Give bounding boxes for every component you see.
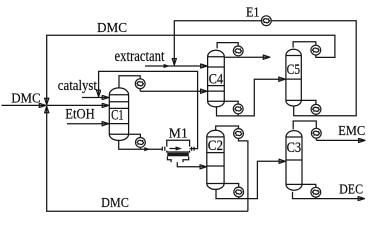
- svg-text:EtOH: EtOH: [65, 106, 95, 122]
- reboiler hx of C5: [311, 104, 321, 114]
- M1 internal flow arrow: [170, 148, 177, 150]
- svg-text:C4: C4: [209, 72, 224, 88]
- svg-text:extractant: extractant: [115, 48, 165, 65]
- svg-text:C1: C1: [111, 108, 124, 124]
- reboiler hx of C1: [136, 138, 146, 148]
- column C4: [208, 50, 225, 107]
- wire: C4 overhead riser to condenser: [217, 43, 238, 49]
- condenser hx of C2: [234, 129, 244, 139]
- condenser hx of C3: [311, 128, 321, 138]
- wire: left vertical up to DMC junction: [46, 107, 48, 212]
- svg-text:C5: C5: [287, 62, 301, 78]
- wire: C1 bottoms to M1: [119, 140, 162, 149]
- svg-text:M1: M1: [169, 125, 188, 140]
- condenser hx of C5: [311, 45, 321, 55]
- wire: top DMC recycle line from C5 condenser, right-up-left across top, down to DMC junction: [47, 35, 335, 104]
- svg-text:C3: C3: [287, 140, 302, 156]
- wire: bottom DMC line: [46, 210, 248, 212]
- wire: C5 reboiler stub: [301, 100, 316, 115]
- column C3: [286, 131, 302, 191]
- wire: catalyst recycle from M1 right port up and over to catalyst line: [99, 71, 198, 148]
- wire: C4 bottoms to C5 feed: [217, 79, 286, 116]
- M1 right flange ticks: [192, 147, 195, 151]
- wire: C3 reboiler stub: [302, 184, 316, 198]
- svg-text:E1: E1: [246, 4, 260, 19]
- wire: C2 overhead riser to condenser: [216, 126, 239, 133]
- column C2: [207, 130, 224, 189]
- svg-text:DMC: DMC: [11, 91, 41, 106]
- wire: C4 distillate product arrow: [224, 56, 269, 58]
- wire: EtOH feed into C1: [67, 123, 109, 125]
- wire: M1 outlet to C2: [177, 162, 206, 167]
- M1 black bar: [167, 153, 189, 157]
- column C5: [286, 49, 301, 106]
- wire: C2 reboiler stub: [224, 184, 239, 199]
- wire: bottom DMC recycle from C2 condenser: down at x247.9: [239, 139, 248, 212]
- svg-text:catalyst: catalyst: [58, 78, 97, 94]
- reboiler hx of C2: [234, 187, 244, 197]
- heat exchanger E1: [261, 16, 271, 26]
- wire: fresh DMC feed: [2, 104, 46, 106]
- wire: C4 reboiler stub: [224, 101, 238, 115]
- wire: EMC product line: [316, 139, 365, 141]
- svg-text:C2: C2: [208, 138, 223, 154]
- mixer M1 body: [167, 140, 190, 152]
- wire: C3 overhead riser to condenser: [293, 121, 316, 140]
- wire: C3 bottoms DEC product line: [293, 192, 365, 199]
- wire: C2 bottoms up to C3 feed: [216, 161, 285, 198]
- M1 left flange ticks: [162, 147, 165, 151]
- svg-text:DMC: DMC: [97, 21, 127, 36]
- condenser hx of C4: [233, 46, 243, 56]
- svg-text:DEC: DEC: [339, 181, 363, 196]
- wire: C5 overhead riser to condenser: [293, 42, 316, 48]
- node: DMC junction / wire: mixed DMC feed into C1: [47, 104, 109, 106]
- reboiler hx of C4: [233, 104, 243, 114]
- reboiler hx of C3: [311, 187, 321, 197]
- wire: catalyst feed into C1: [82, 97, 109, 99]
- svg-text:EMC: EMC: [338, 123, 365, 138]
- svg-text:DMC: DMC: [101, 196, 129, 211]
- wire: C1 reboiler stub: [129, 134, 141, 149]
- wire: extractant feed line into C4: [145, 65, 207, 67]
- column C1: [109, 88, 128, 141]
- M1 bottom legs: [167, 156, 188, 162]
- wire: C1 overhead riser to condenser and distillate line into C4: [119, 76, 140, 92]
- condenser hx of C1: [135, 79, 145, 89]
- wire: C5 bottoms through E1 loop to extractant line: [174, 21, 356, 116]
